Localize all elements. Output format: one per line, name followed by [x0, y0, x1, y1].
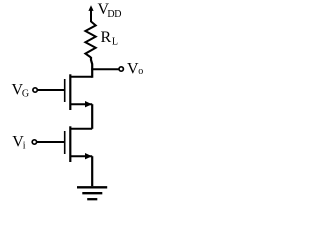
wire: Q2 source to Q1 drain (rail) [91, 104, 93, 129]
transistor Q2 (cascode) [65, 74, 93, 110]
wire: VG terminal to Q2 gate [37, 89, 64, 91]
svg-text:o: o [138, 66, 143, 77]
terminal VG [33, 88, 37, 92]
svg-text:V: V [127, 61, 139, 78]
svg-text:L: L [112, 36, 118, 47]
terminal Vo [119, 67, 123, 71]
Q1 drain lead [70, 128, 92, 130]
svg-text:G: G [22, 89, 29, 100]
terminal Vi [32, 140, 36, 144]
resistor RL [85, 22, 95, 58]
VDD supply arrow [88, 5, 93, 22]
ground symbol [77, 187, 107, 199]
Q1 source lead with arrow [70, 155, 92, 157]
svg-text:R: R [101, 29, 112, 46]
wire: Vi terminal to Q1 gate [37, 141, 65, 143]
Q1 channel bar [69, 126, 71, 162]
svg-text:i: i [23, 140, 26, 151]
wire: resistor to drain node (rail) [91, 57, 92, 78]
Q2 source lead with arrow [70, 103, 92, 105]
transistor Q1 (input) [65, 126, 93, 162]
wire: output node to Vo terminal [91, 68, 118, 70]
Q2 channel bar [69, 74, 71, 110]
Q2 gate bar [64, 79, 66, 102]
svg-text:DD: DD [107, 9, 121, 20]
Q2 drain lead [70, 76, 92, 78]
wire: Q1 source to ground (rail) [91, 156, 93, 186]
Q1 gate bar [64, 131, 66, 154]
